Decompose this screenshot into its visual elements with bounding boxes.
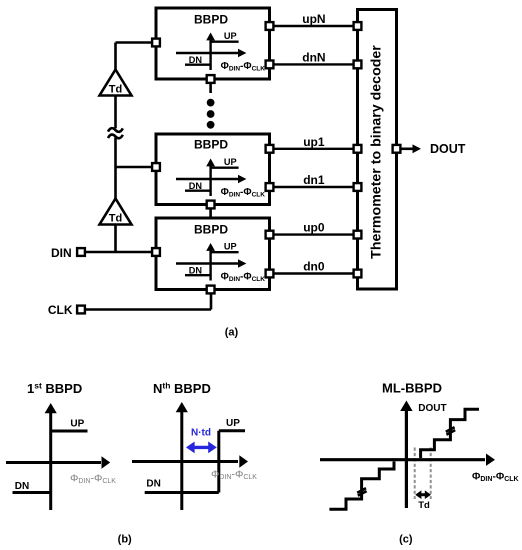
- svg-text:BBPD: BBPD: [194, 13, 228, 27]
- svg-text:UP: UP: [70, 418, 84, 429]
- svg-text:Nth BBPD: Nth BBPD: [153, 381, 211, 397]
- svg-text:1st BBPD: 1st BBPD: [27, 381, 82, 397]
- svg-text:ΦDIN-ΦCLK: ΦDIN-ΦCLK: [70, 473, 116, 486]
- svg-text:(b): (b): [118, 534, 132, 546]
- svg-text:Td: Td: [418, 500, 430, 511]
- svg-text:up1: up1: [303, 135, 325, 149]
- svg-text:UP: UP: [226, 418, 240, 429]
- svg-text:upN: upN: [302, 12, 325, 26]
- svg-text:up0: up0: [303, 221, 325, 235]
- svg-text:(c): (c): [399, 534, 413, 546]
- svg-text:ΦDIN-ΦCLK: ΦDIN-ΦCLK: [211, 469, 257, 482]
- svg-text:BBPD: BBPD: [194, 138, 228, 152]
- svg-text:DN: DN: [15, 481, 29, 492]
- svg-text:ML-BBPD: ML-BBPD: [382, 381, 442, 396]
- svg-text:ΦDIN-ΦCLK: ΦDIN-ΦCLK: [472, 472, 519, 484]
- svg-text:CLK: CLK: [48, 303, 73, 317]
- svg-text:DIN: DIN: [51, 246, 72, 260]
- svg-text:DOUT: DOUT: [430, 142, 466, 156]
- svg-text:N·td: N·td: [191, 428, 211, 439]
- svg-text:dnN: dnN: [302, 50, 325, 64]
- svg-text:Thermometer to binary decoder: Thermometer to binary decoder: [368, 45, 384, 259]
- svg-text:(a): (a): [225, 327, 239, 339]
- svg-text:dn1: dn1: [303, 173, 325, 187]
- svg-text:dn0: dn0: [303, 260, 325, 274]
- svg-text:BBPD: BBPD: [194, 223, 228, 237]
- svg-text:DN: DN: [146, 479, 160, 490]
- svg-text:DOUT: DOUT: [418, 403, 446, 414]
